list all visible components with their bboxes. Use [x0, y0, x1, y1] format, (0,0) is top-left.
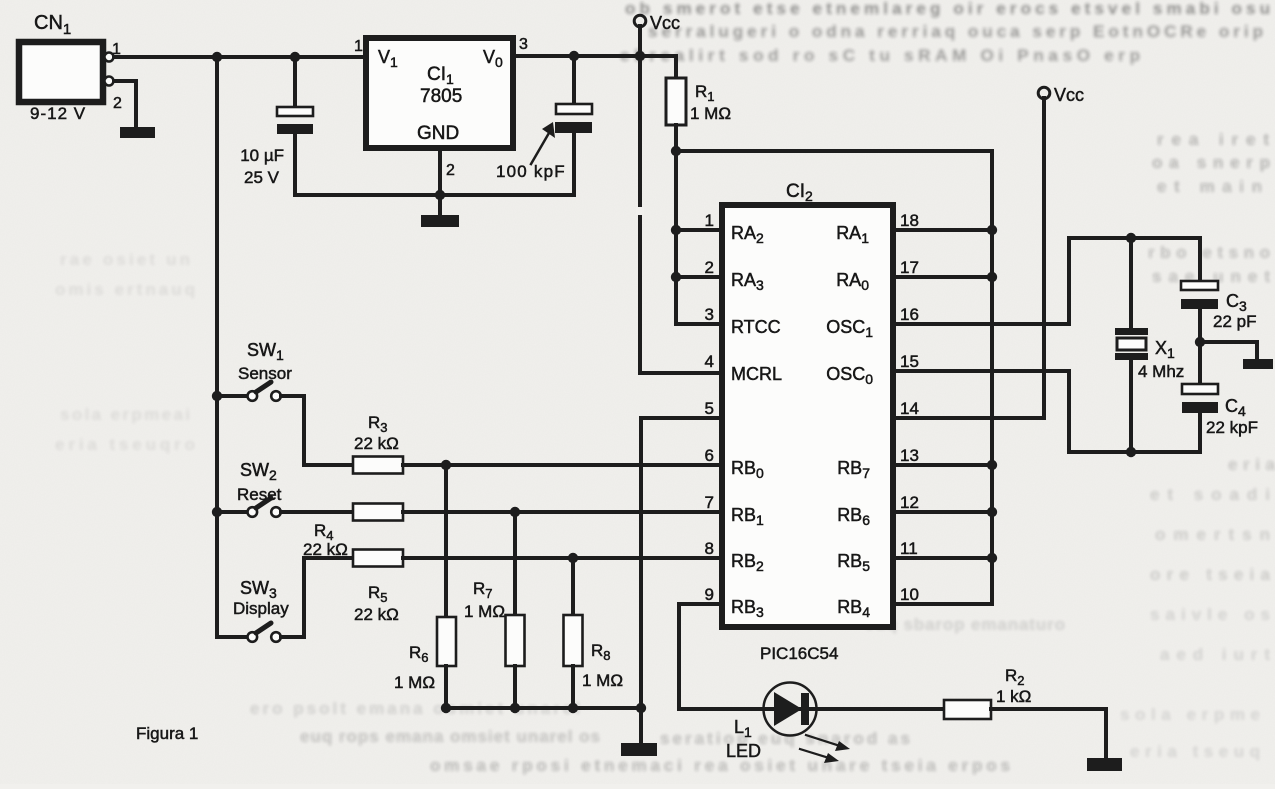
svg-text:3: 3 — [705, 305, 714, 324]
node junction C3 C4 — [1195, 337, 1205, 347]
node junction crystal bottom — [1126, 447, 1136, 457]
capacitor 100kpF plates — [556, 104, 592, 114]
svg-text:PIC16C54: PIC16C54 — [760, 644, 838, 663]
crystal X1 stub top — [1129, 238, 1133, 328]
ground right of C3 — [1243, 359, 1273, 369]
svg-text:13: 13 — [900, 446, 919, 465]
svg-text:Vcc: Vcc — [1054, 85, 1084, 105]
resistor R7 — [506, 615, 525, 666]
capacitor C4 plates — [1182, 384, 1218, 394]
wire R5 to pin8 RB2 — [403, 556, 720, 560]
node junction R8 top — [568, 553, 578, 563]
node junction pin2 rail — [435, 190, 445, 200]
wire R6 top lead — [444, 465, 448, 617]
wire crystal loop top horizontal — [1069, 236, 1200, 240]
svg-text:22 kΩ: 22 kΩ — [354, 605, 399, 624]
svg-text:6: 6 — [705, 446, 714, 465]
svg-text:4: 4 — [705, 352, 714, 371]
node junction pin2 — [671, 272, 681, 282]
svg-text:18: 18 — [900, 211, 919, 230]
svg-text:22 kpF: 22 kpF — [1206, 418, 1258, 437]
arrow pointing to 100kpF — [531, 133, 549, 164]
capacitor C3 stub top — [1198, 238, 1202, 281]
switch SW3 Display — [217, 635, 248, 639]
wire 7805 pin2 to rail — [438, 148, 442, 215]
wire pin5 Vss to ground — [641, 418, 720, 743]
resistor R5 — [353, 550, 403, 567]
switch SW1 Sensor — [217, 394, 248, 398]
svg-text:22 kΩ: 22 kΩ — [303, 540, 348, 559]
wire R8 bottom lead — [571, 666, 575, 708]
svg-text:1 MΩ: 1 MΩ — [690, 104, 731, 123]
wire R7 bottom lead — [513, 666, 517, 708]
wire R1 bottom — [674, 125, 678, 151]
wire R6 bottom lead — [444, 666, 448, 708]
node junction bus pin13 — [987, 460, 997, 470]
node junction bottom bus right end — [636, 703, 646, 713]
svg-text:100 kpF: 100 kpF — [496, 162, 566, 181]
node junction R6 top — [441, 460, 451, 470]
svg-text:1 MΩ: 1 MΩ — [394, 673, 435, 692]
svg-text:MCRL: MCRL — [731, 364, 782, 384]
wire SW1 to R3 — [281, 396, 353, 465]
wire pin1 RA2 — [676, 228, 720, 232]
scan gap artifact on Vcc line — [636, 207, 644, 215]
wire SW2 to R4 — [281, 510, 353, 514]
wire C3 bottom — [1198, 309, 1202, 384]
node junction crystal top — [1126, 233, 1136, 243]
svg-text:2: 2 — [705, 258, 714, 277]
LED L1 triangle anode — [774, 692, 802, 726]
wire Vcc1 down to MCRL — [640, 26, 720, 373]
svg-text:Reset: Reset — [237, 485, 282, 504]
wire pin2 RA3 — [676, 275, 720, 279]
wire 7805 V0 output — [514, 54, 676, 58]
pin 1 terminal of CN1 — [105, 53, 114, 62]
wire pin10 RB4 — [895, 602, 992, 606]
svg-text:8: 8 — [705, 539, 714, 558]
resistor R6 — [437, 617, 456, 666]
svg-text:2: 2 — [446, 162, 455, 179]
svg-text:1 MΩ: 1 MΩ — [464, 602, 505, 621]
node junction pin1 — [671, 225, 681, 235]
resistor R1 stub — [674, 56, 678, 78]
resistor R3 — [353, 457, 403, 474]
wire pin11 RB5 — [895, 556, 992, 560]
wire crystal loop bottom horizontal — [1069, 450, 1200, 454]
wire R1 down to RTCC — [676, 151, 720, 324]
node junction Vcc line top — [635, 51, 645, 61]
svg-text:11: 11 — [900, 539, 918, 558]
connector CN1 — [19, 42, 103, 102]
crystal X1 symbol — [1115, 328, 1148, 335]
switch SW2 Reset — [217, 510, 248, 514]
node junction R7 bottom — [510, 703, 520, 713]
wire R2 to ground — [991, 709, 1106, 758]
wire pin16 OSC1 to crystal loop — [895, 322, 1069, 326]
svg-text:LED: LED — [726, 741, 761, 761]
svg-text:17: 17 — [900, 258, 919, 277]
node junction R7 top — [510, 507, 520, 517]
svg-text:10: 10 — [900, 585, 919, 604]
svg-text:Sensor: Sensor — [238, 364, 292, 383]
wire pin12 RB6 — [895, 510, 992, 514]
wire through LED to R2 — [764, 707, 944, 711]
wire R1 to right bus top — [676, 151, 992, 604]
node junction left bus top — [212, 52, 222, 62]
svg-text:4 Mhz: 4 Mhz — [1138, 362, 1184, 381]
svg-text:1: 1 — [705, 211, 714, 230]
node junction below R1 — [671, 146, 681, 156]
LED light arrow 2 — [800, 749, 829, 758]
LED L1 circle — [764, 683, 817, 736]
resistor R2 — [944, 700, 991, 719]
svg-text:7: 7 — [705, 493, 714, 512]
wire C4 bottom — [1198, 413, 1202, 452]
resistor R8 — [564, 615, 583, 666]
svg-text:Display: Display — [233, 599, 289, 618]
node junction bus pin17 — [987, 272, 997, 282]
wire R4 to pin7 RB1 — [403, 510, 720, 514]
node junction SW1 — [212, 391, 222, 401]
wire pin9 RB3 to LED — [679, 604, 764, 709]
node junction 100kpF top — [569, 51, 579, 61]
power Vcc terminal 1 — [634, 15, 646, 27]
wire 10uF bottom to ground rail — [295, 134, 574, 195]
svg-text:25 V: 25 V — [244, 168, 280, 187]
node junction SW2 — [212, 507, 222, 517]
ground main bottom — [621, 743, 657, 756]
svg-text:15: 15 — [900, 352, 919, 371]
LED L1 cathode bar — [801, 693, 809, 725]
node junction bus pin11 — [987, 553, 997, 563]
power Vcc terminal 2 — [1038, 87, 1050, 99]
wire SW3 to R5 — [281, 558, 353, 637]
pin 2 terminal of CN1 — [105, 77, 114, 86]
svg-text:1: 1 — [354, 38, 363, 55]
crystal X1 stub bottom — [1129, 360, 1133, 452]
svg-text:Figura 1: Figura 1 — [136, 724, 198, 743]
node junction bus pin12 — [987, 507, 997, 517]
svg-text:1: 1 — [112, 41, 121, 58]
node junction R8 bottom — [568, 703, 578, 713]
wire R7 top lead — [513, 512, 517, 615]
wire Vcc2 down to pin14 — [895, 98, 1044, 418]
svg-text:9: 9 — [705, 585, 714, 604]
resistor R1 — [666, 78, 686, 125]
svg-text:10 µF: 10 µF — [240, 146, 284, 165]
wire C3C4 node to ground — [1200, 342, 1257, 359]
ground below CN1 — [120, 127, 155, 138]
node junction R6 bottom — [441, 703, 451, 713]
svg-text:3: 3 — [519, 36, 528, 53]
svg-text:22 kΩ: 22 kΩ — [354, 434, 399, 453]
resistor R4 — [353, 504, 403, 521]
svg-text:9-12 V: 9-12 V — [30, 104, 86, 123]
wire pin13 RB7 — [895, 463, 992, 467]
wire bottom resistor bus — [446, 706, 641, 710]
node junction bus pin18 — [987, 225, 997, 235]
wire CN1 pin1 to 7805 V1 — [114, 55, 363, 59]
svg-text:5: 5 — [705, 399, 714, 418]
svg-text:GND: GND — [417, 123, 459, 144]
svg-text:22 pF: 22 pF — [1213, 312, 1256, 331]
wire pin15 OSC0 to crystal loop bottom — [895, 371, 1069, 452]
svg-text:12: 12 — [900, 493, 919, 512]
svg-text:16: 16 — [900, 305, 919, 324]
ground below 7805 — [421, 215, 459, 227]
svg-text:2: 2 — [113, 95, 122, 112]
op-amp U1 regulator CI1 7805 box — [366, 38, 513, 148]
wire 100kpF bottom — [572, 133, 576, 195]
node junction 10uF top — [290, 52, 300, 62]
wire R8 top lead — [571, 558, 575, 615]
wire crystal loop left top vertical — [1067, 238, 1071, 324]
capacitor 100kpF stub — [572, 56, 576, 104]
svg-text:1 kΩ: 1 kΩ — [996, 687, 1031, 706]
ground below R2 — [1087, 758, 1122, 771]
svg-text:1 MΩ: 1 MΩ — [582, 671, 623, 690]
capacitor 10uF stub top — [293, 57, 297, 107]
transistor U2 microcontroller CI2 box — [722, 205, 893, 627]
svg-text:14: 14 — [900, 399, 919, 418]
svg-text:7805: 7805 — [420, 86, 462, 107]
wire CN1 pin2 down — [114, 81, 136, 127]
LED light arrow 1 — [806, 735, 840, 746]
wire left bus vertical — [215, 57, 219, 637]
wire pin17 RA0 — [895, 275, 992, 279]
capacitor C3 plates — [1181, 281, 1218, 290]
svg-text:RTCC: RTCC — [731, 317, 781, 337]
wire R3 to pin6 RB0 — [403, 463, 720, 467]
svg-text:Vcc: Vcc — [650, 13, 680, 33]
wire pin18 RA1 — [895, 228, 992, 232]
capacitor 10uF plates — [277, 107, 313, 116]
